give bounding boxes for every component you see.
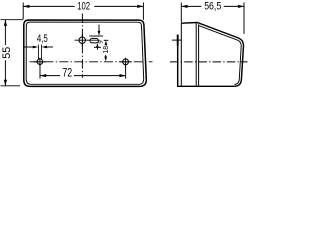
dimension 4,5 right arrow <box>42 46 47 49</box>
dimension 72 extension line left <box>39 65 41 79</box>
svg-text:18: 18 <box>101 46 110 54</box>
lamp front view inner lens line <box>26 22 144 84</box>
svg-text:55: 55 <box>1 47 13 59</box>
dimension 55 extension line top <box>1 19 24 21</box>
dimension 72 line <box>40 75 60 77</box>
side view outer outline <box>178 23 244 87</box>
dimension 18 top arrow <box>105 41 108 46</box>
dimension 55 top arrow <box>4 20 7 26</box>
dimension 4,5 line right <box>47 46 54 48</box>
dimension 56,5 line <box>182 5 202 7</box>
vertical centerline of lamp <box>81 14 83 78</box>
dimension 9 top arrow <box>98 25 100 33</box>
center hole crosshair vertical <box>81 34 83 47</box>
left hole vertical centerline <box>39 58 41 67</box>
dimension 55 extension line bottom <box>1 85 21 87</box>
svg-text:72: 72 <box>62 66 72 80</box>
dimension 72 left arrow <box>40 74 46 77</box>
dimension 4,5 extension line right <box>41 45 43 59</box>
dimension 56,5 extension line left <box>180 3 182 23</box>
dimension 9 bottom arrow <box>96 47 98 50</box>
dimension 9 bottom reference line <box>94 46 101 48</box>
mounting hole left <box>37 59 43 65</box>
dimension 9 top reference line <box>89 35 103 37</box>
dimension 102 line <box>23 5 74 7</box>
dimension 56,5 extension line right <box>243 3 245 35</box>
dimension 72 extension line right <box>125 65 127 79</box>
dimension 102 extension line left <box>22 3 24 20</box>
right hole vertical centerline <box>125 58 127 67</box>
bulb axis line <box>75 39 100 41</box>
dimension 55 bottom arrow <box>4 80 7 86</box>
dimension 4,5 left arrow <box>33 46 38 49</box>
horizontal centerline through mounting holes <box>30 61 153 63</box>
mounting hole right <box>123 59 129 65</box>
side view centerline <box>170 61 248 63</box>
svg-text:4,5: 4,5 <box>37 33 48 45</box>
side view lens inner line <box>199 26 241 85</box>
dimension 56,5 right arrow <box>238 5 244 8</box>
right hole crosshair horizontal <box>120 61 132 63</box>
svg-text:56,5: 56,5 <box>204 1 221 13</box>
side view back plate edges <box>181 23 198 87</box>
dimension 56,5 left arrow <box>181 5 187 8</box>
center hole <box>79 37 85 43</box>
svg-text:102: 102 <box>77 1 90 13</box>
dimension 4,5 extension line left <box>37 45 39 59</box>
dimension 18 top tick <box>104 39 109 41</box>
side view bulb axis tick <box>172 39 182 41</box>
left hole crosshair horizontal <box>34 61 46 63</box>
dimension 72 right arrow <box>120 74 126 77</box>
dimension 102 right arrow <box>137 5 143 8</box>
center slot <box>90 38 99 43</box>
dimension 18 bottom arrow <box>105 55 107 58</box>
side view rear grommet <box>177 35 179 46</box>
dimension 4,5 line left <box>24 46 34 48</box>
dimension 102 extension line right <box>142 3 144 20</box>
lamp front view outer outline <box>24 20 147 86</box>
dimension 102 left arrow <box>23 5 29 8</box>
dimension 55 line <box>4 20 6 45</box>
